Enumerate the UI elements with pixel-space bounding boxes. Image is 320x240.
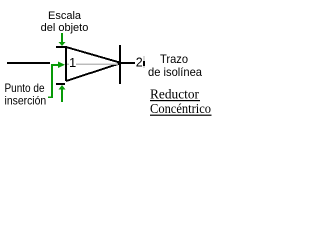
svg-text:inserción: inserción <box>5 94 47 108</box>
punto leader horizontal <box>51 64 59 66</box>
wire: left pipe segment <box>7 62 50 64</box>
svg-text:1: 1 <box>69 55 76 70</box>
centerline gray <box>67 64 118 65</box>
escala arrow stem <box>61 33 63 42</box>
punto leader vertical <box>51 64 53 98</box>
svg-text:2: 2 <box>136 56 143 70</box>
reducer bottom edge <box>66 64 119 81</box>
reducer top edge <box>66 47 119 62</box>
reducer left edge <box>65 46 67 81</box>
isoline gray vertical <box>144 56 145 68</box>
svg-text:del objeto: del objeto <box>41 22 89 34</box>
svg-text:de isolínea: de isolínea <box>148 65 202 79</box>
escala arrow head (down) <box>59 42 66 46</box>
scale tick top <box>56 46 65 48</box>
punto arrow head (right) <box>58 62 65 69</box>
isoline node dot <box>143 61 145 66</box>
node 1 backing <box>69 57 76 68</box>
link Concentrico underline <box>150 115 212 116</box>
insert arrow stem (up) <box>61 89 63 102</box>
apex vertical line <box>119 45 121 84</box>
link Reductor underline <box>150 100 200 101</box>
insert arrow head (up) <box>59 85 66 90</box>
svg-text:Escala: Escala <box>48 10 82 22</box>
svg-text:Trazo: Trazo <box>160 52 188 66</box>
wire: right pipe segment <box>120 62 135 64</box>
scale tick bottom <box>56 83 65 85</box>
punto leader foot <box>48 97 51 99</box>
